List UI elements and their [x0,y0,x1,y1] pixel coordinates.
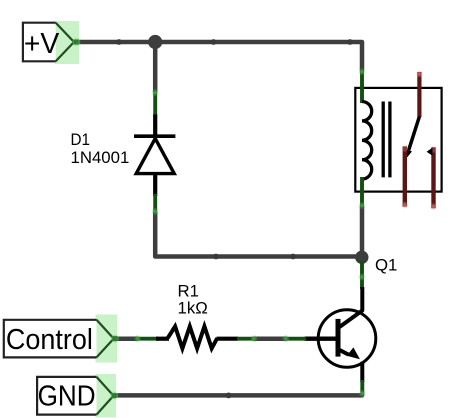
net label Control [4,315,119,363]
D1 cathode pin (green, to +V node) [153,90,157,117]
wire +V node to relay coil (top rail) [77,42,363,70]
wire relay coil bottom to collector node [360,207,365,252]
relay coil [362,102,372,180]
relay switch arm [405,117,419,159]
Q1 base lead [305,337,337,341]
net label +V [23,21,80,64]
label Q1 [375,256,397,275]
wire joint bumps on bottom diode branch [213,254,296,260]
wire D1 anode to collector node (bottom of diode branch) [155,213,362,257]
Q1 collector pin (green) [360,261,364,289]
Q1 collector lead [338,287,362,328]
R1 left pin (green) [134,337,158,341]
R1 left lead [156,337,169,341]
R1 right pin (green) [237,337,257,341]
wire joint bump on GND wire [226,393,232,399]
relay (box) [355,88,441,192]
resistor R1 [134,326,257,348]
R1 right lead [217,337,239,341]
diode D1 [134,89,175,215]
svg-text:Q1: Q1 [375,256,397,275]
D1 triangle (anode) [136,139,174,174]
net label GND [37,374,118,417]
wire joint bumps on top rail [116,39,353,45]
Q1 emitter with arrow [338,349,348,354]
relay coil pin bottom (green) [359,177,366,209]
relay core lines [383,102,390,178]
Q1 emitter pin (green) [360,380,364,396]
relay common pin (red, unconnected) [416,71,422,117]
D1 cathode lead [153,115,157,138]
D1 anode lead [153,174,157,196]
svg-text:1kΩ: 1kΩ [178,299,208,318]
svg-text:D1: D1 [71,130,91,149]
relay contact right (red, unconnected) with hook [427,146,437,209]
Q1 body circle [318,310,376,368]
svg-text:+V: +V [24,27,60,59]
svg-text:GND: GND [38,379,96,411]
wire Control label to R1 [116,336,137,341]
wire R1 to Q1 base [254,336,286,341]
relay coil pin top (green) [359,68,366,103]
svg-text:R1: R1 [178,281,199,300]
Q1 base bar [336,319,341,357]
label R1 / 1kΩ [178,281,208,317]
label D1 [71,130,130,167]
R1 zigzag body [168,326,217,348]
Q1 emitter lead [360,362,364,382]
svg-text:1N4001: 1N4001 [71,148,130,167]
wire +V node down to D1 cathode [153,42,158,91]
D1 anode pin (green) [153,194,157,214]
transistor Q1 [282,261,375,397]
junction at Q1 collector node [355,251,368,264]
junction at +V / D1 node [148,35,162,49]
Q1 base pin (green) [284,337,307,341]
svg-text:Control: Control [6,323,93,355]
D1 cathode bar [134,134,175,138]
wire GND label to Q1 emitter [118,393,362,398]
relay contact left (red, unconnected) [402,145,408,208]
